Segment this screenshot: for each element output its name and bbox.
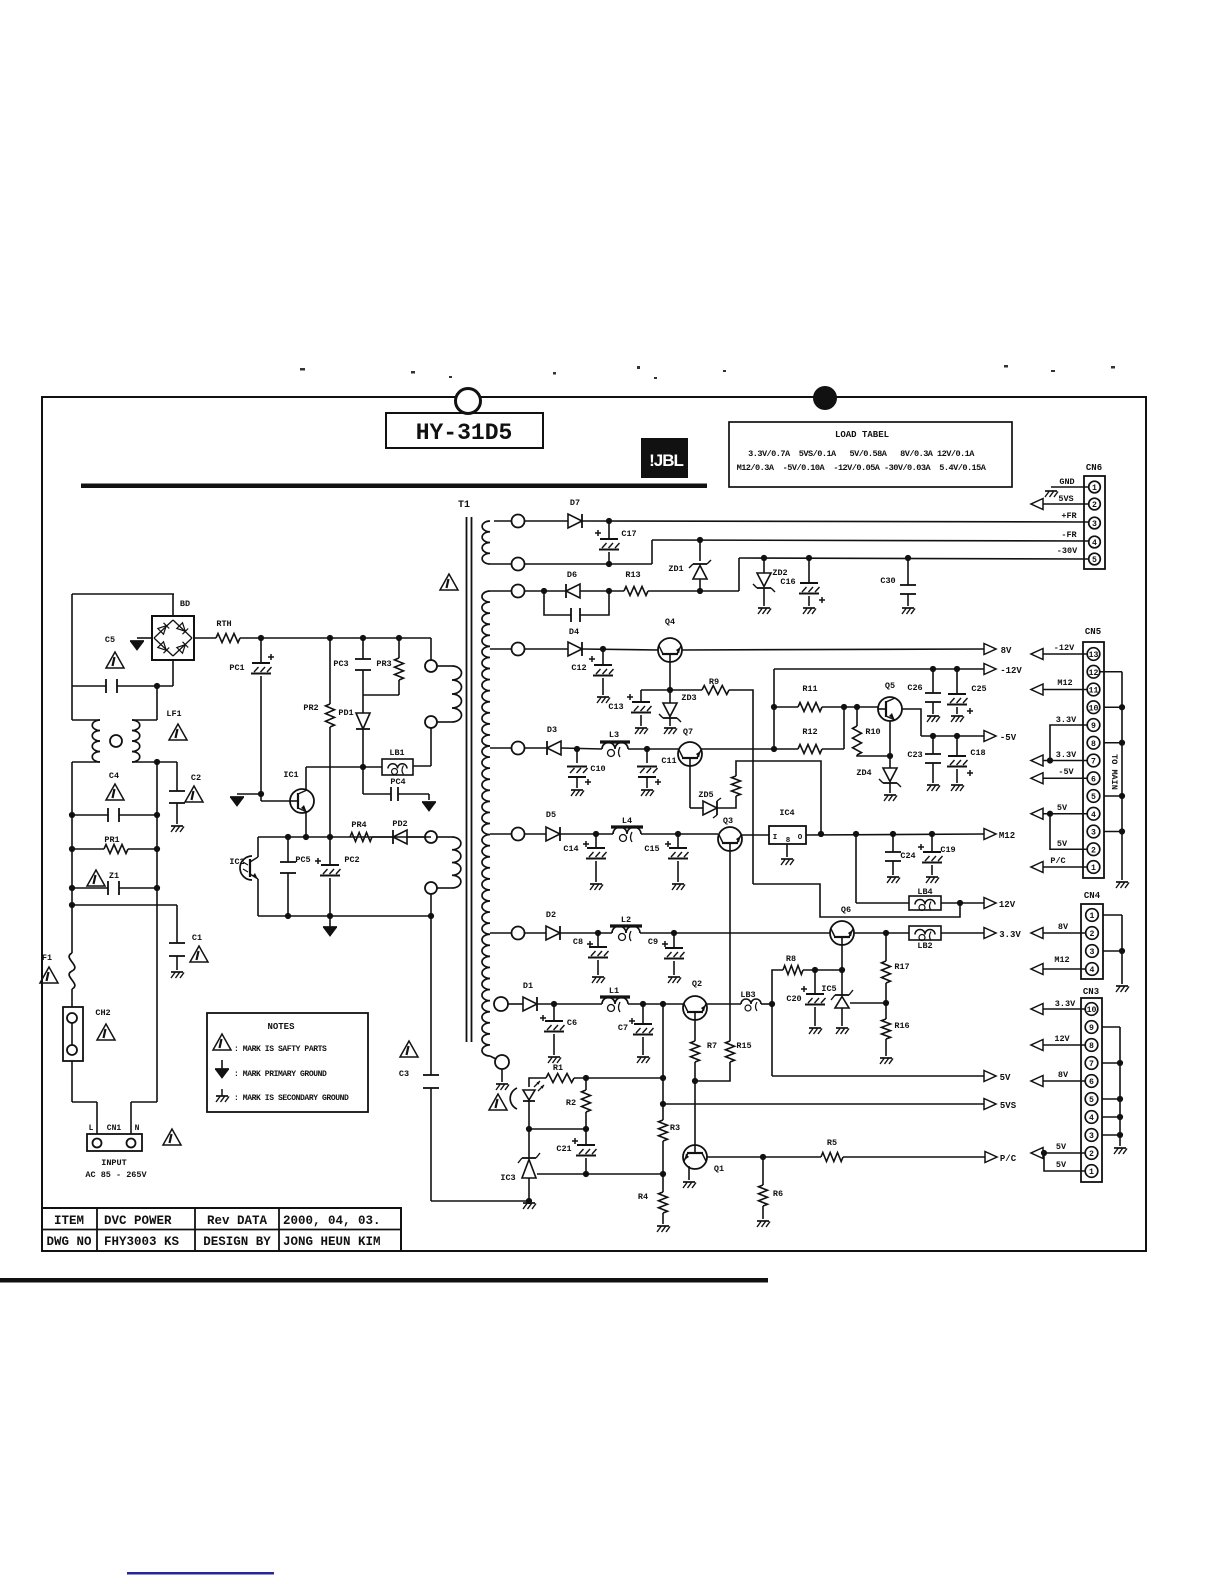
wire left rail C4 <box>71 762 73 815</box>
junction R17 top <box>883 930 889 936</box>
CN5 pin 10 <box>1087 701 1100 714</box>
wire left rail Z1 <box>71 849 73 888</box>
wire IC3 anode lead <box>528 1178 530 1201</box>
wire PR2 bottom lead <box>329 727 331 837</box>
primary ground at PC4 <box>422 801 436 803</box>
junction R12 left <box>771 746 777 752</box>
svg-text:7: 7 <box>1091 758 1096 767</box>
wire L4 to Q3 <box>641 833 718 835</box>
CN5 pin 2 <box>1087 843 1100 856</box>
svg-text:PD2: PD2 <box>392 819 407 829</box>
wire to C13 <box>641 689 670 691</box>
diode D3 <box>547 741 561 755</box>
arrow 8V to CN3 <box>1031 1076 1043 1087</box>
ground at C12 <box>597 696 609 698</box>
wire PD2 to winding <box>407 836 425 838</box>
wire LB2 to 3.3V arrow <box>941 932 984 934</box>
wire CN1 N drop <box>130 1102 132 1134</box>
junction CN3 bus pin7 <box>1117 1060 1123 1066</box>
junction C20 <box>812 967 818 973</box>
plus mark C15 <box>665 843 671 845</box>
plus mark C18 <box>967 772 973 774</box>
svg-text:C16: C16 <box>780 577 795 587</box>
wire R4 bottom lead <box>662 1213 664 1224</box>
wire PR1 right <box>128 848 157 850</box>
capacitor C24 <box>885 851 901 853</box>
svg-text:D3: D3 <box>547 725 557 735</box>
svg-text:L1: L1 <box>609 986 619 996</box>
wire Q2 base lead <box>694 1020 696 1041</box>
wire left rail PR1 <box>71 815 73 849</box>
svg-text:D7: D7 <box>570 498 580 508</box>
svg-text:BD: BD <box>180 599 190 609</box>
wire sec tap D4 <box>490 648 511 650</box>
wire CN3 pin3 bus stub <box>1102 1134 1120 1136</box>
wire CN6 5VS <box>1043 503 1088 505</box>
wire C15 top lead <box>677 834 679 848</box>
wire D4 anode <box>524 648 568 650</box>
wire FR return <box>524 563 652 565</box>
svg-text:C11: C11 <box>661 756 676 766</box>
wire PR4 to PD2 <box>372 836 393 838</box>
svg-text:C2: C2 <box>191 773 201 783</box>
wire R11 to Q5 base <box>822 706 878 708</box>
wire L1 to Q2 <box>628 1003 684 1005</box>
junction C24 <box>890 831 896 837</box>
svg-text:2000, 04, 03.: 2000, 04, 03. <box>283 1214 381 1228</box>
wire C17 bottom lead <box>608 552 610 564</box>
thick bottom rule <box>0 1278 768 1283</box>
wire R10 top lead <box>856 707 858 726</box>
svg-text:L4: L4 <box>622 816 632 826</box>
CN5 pin 5 <box>1087 790 1100 803</box>
junction C30 <box>905 555 911 561</box>
wire sec tap D2 <box>490 932 511 934</box>
wire IC2 emitter <box>257 879 259 916</box>
arrow 5VS to CN6 <box>1031 499 1043 510</box>
svg-text:L2: L2 <box>621 915 631 925</box>
wire PC4 left <box>363 793 391 795</box>
CN6 pin 3 <box>1089 517 1101 529</box>
warning mark at C1 <box>190 946 208 962</box>
wire M12 to LB4 <box>855 834 857 903</box>
junction PD1/LB1/IC1 <box>360 764 366 770</box>
capacitor PC1 <box>252 662 270 664</box>
diode D4 <box>568 642 582 656</box>
wire LF1 left bottom <box>72 761 100 763</box>
wire C6 bottom lead <box>553 1034 555 1055</box>
wire Q4 base lead <box>669 662 671 690</box>
svg-text:2: 2 <box>1091 846 1096 855</box>
wire D1 anode <box>508 1003 523 1005</box>
inductor bead LB4 <box>909 896 941 910</box>
svg-text:C4: C4 <box>109 771 119 781</box>
arrow P/C to CN5 <box>1031 862 1043 873</box>
junction R17/R16 <box>883 1000 889 1006</box>
wire 5V rail <box>772 1075 984 1077</box>
line filter LF1 left winding <box>92 720 100 762</box>
wire IC1 base <box>261 800 290 802</box>
diode D2 <box>546 926 560 940</box>
wire C16 top lead <box>808 558 810 583</box>
wire C5 left <box>72 685 106 687</box>
wire CN3 ground bus <box>1119 1027 1121 1146</box>
CN5 pin 11 <box>1087 683 1100 696</box>
svg-text:6: 6 <box>1091 775 1096 784</box>
arrow 3.3V to CN3 <box>1031 1004 1043 1015</box>
ground at CN5 bus <box>1116 881 1128 883</box>
CN5 pin 12 <box>1087 665 1100 678</box>
wire PC5 top lead <box>287 837 289 862</box>
wire left rail to C1 row <box>71 888 73 905</box>
svg-text:C13: C13 <box>608 702 623 712</box>
wire Q7 to R12 row <box>701 748 798 750</box>
CN4 pin 1 <box>1086 909 1099 922</box>
wire P/C rail <box>843 1156 985 1158</box>
resistor R12 <box>798 745 822 754</box>
wire C11 bottom lead <box>646 777 648 788</box>
junction C17 <box>606 518 612 524</box>
wire C11 top lead <box>646 749 648 763</box>
wire CN5 pin11 <box>1043 689 1087 691</box>
capacitor PC5 <box>280 861 296 863</box>
wire C21 top lead <box>585 1129 587 1145</box>
svg-text:C20: C20 <box>786 994 801 1004</box>
wire PC3 top lead <box>362 638 364 659</box>
svg-text:R3: R3 <box>670 1123 680 1133</box>
svg-text:Rev DATA: Rev DATA <box>207 1214 268 1228</box>
junction PC5 top <box>285 834 291 840</box>
ground at C2 <box>171 825 183 827</box>
plus mark C17 <box>595 532 601 534</box>
wire CN5 pin4 <box>1043 813 1087 815</box>
wire right rail C4 <box>156 762 158 815</box>
wire CN4 pin1 bus stub <box>1103 914 1122 916</box>
svg-text:T1: T1 <box>458 500 470 511</box>
junction CN3 bus pin3 <box>1117 1132 1123 1138</box>
svg-text:Q1: Q1 <box>714 1164 724 1174</box>
resistor R13 <box>624 587 648 596</box>
junction CN5 bus pin3 <box>1119 828 1125 834</box>
connector CN6 box <box>1084 476 1105 569</box>
svg-text:C6: C6 <box>567 1018 577 1028</box>
inductor L1 <box>602 998 628 1004</box>
svg-text:R8: R8 <box>786 954 796 964</box>
wire IC3 node row <box>529 1128 586 1130</box>
wire Q7 emitter drop <box>689 766 691 808</box>
wire BD bottom stub <box>172 660 174 686</box>
wire CN3 pin6 <box>1043 1080 1085 1082</box>
transistor Q7 <box>678 742 702 766</box>
svg-text:R15: R15 <box>736 1041 751 1051</box>
svg-text:3.3V: 3.3V <box>1055 999 1076 1009</box>
transistor IC1 <box>290 789 314 813</box>
svg-text:LB3: LB3 <box>740 990 755 1000</box>
wire IC1 emitter <box>305 812 307 837</box>
CN5 pin 13 <box>1087 648 1100 661</box>
CN3 pin 2 <box>1085 1147 1098 1160</box>
svg-text:8: 8 <box>786 837 791 845</box>
arrow 5V to CN3 <box>1031 1148 1043 1159</box>
junction C17 bottom <box>606 561 612 567</box>
ground at R6 <box>757 1220 769 1222</box>
inductor bead LB1 <box>382 759 413 775</box>
plus mark C9 <box>662 943 668 945</box>
notes secondary ground symbol <box>221 1089 223 1096</box>
resistor R17 <box>882 961 891 983</box>
resistor R5 <box>821 1153 843 1162</box>
junction C4 right <box>154 812 160 818</box>
svg-text:PR4: PR4 <box>351 820 366 830</box>
ground at C14 <box>590 883 602 885</box>
warning mark at Z1 <box>87 870 105 886</box>
wire -30V riser <box>738 558 740 591</box>
T1 secondary winding top <box>482 521 490 564</box>
wire C25 top lead <box>956 669 958 694</box>
wire CN5 ground bus <box>1121 672 1123 880</box>
wire primary bottom rail <box>258 915 431 917</box>
svg-text:CN3: CN3 <box>1083 987 1099 997</box>
plus mark C7 <box>629 1020 635 1022</box>
svg-text:: MARK IS SAFTY PARTS: : MARK IS SAFTY PARTS <box>234 1045 327 1054</box>
wire CN6 GND stub <box>1051 486 1088 488</box>
plus mark PC2 <box>315 860 321 862</box>
wire primary feedback row <box>258 836 431 838</box>
junction ZD1 bottom <box>697 588 703 594</box>
junction R6 <box>760 1154 766 1160</box>
plus mark C12 <box>589 658 595 660</box>
junction C4 left <box>69 812 75 818</box>
wire C8 top lead <box>597 933 599 947</box>
wire CN4 ground bus <box>1121 915 1123 984</box>
svg-text:R1: R1 <box>553 1063 563 1073</box>
svg-text:-5V: -5V <box>1000 733 1017 743</box>
wire LB3 out <box>761 1003 772 1005</box>
wire PC5 bottom lead <box>287 873 289 916</box>
capacitor C12 <box>594 664 612 666</box>
junction CN5 5V <box>1047 811 1053 817</box>
ground at R16 <box>880 1057 892 1059</box>
svg-text:C5: C5 <box>105 635 115 645</box>
wire -30V rail <box>739 558 1088 559</box>
svg-text:5V: 5V <box>1057 839 1068 849</box>
wire sec tap D5 <box>490 833 511 835</box>
wire opto cathode drop <box>528 1101 530 1129</box>
resistor PR3 <box>395 658 404 680</box>
T1 primary winding terminal lower1 <box>425 831 437 843</box>
arrow 5VS output <box>984 1099 996 1110</box>
ground at IC4 <box>781 858 793 860</box>
svg-text:AC 85 - 265V: AC 85 - 265V <box>85 1170 147 1180</box>
svg-text:CN5: CN5 <box>1085 627 1101 637</box>
T1 secondary terminal FR <box>512 558 525 571</box>
svg-text:R7: R7 <box>707 1041 717 1051</box>
svg-text:C30: C30 <box>880 576 895 586</box>
scan speck <box>1004 365 1008 368</box>
svg-text:Z1: Z1 <box>109 871 119 881</box>
resistor RTH <box>216 634 240 643</box>
plus mark C11 <box>655 781 661 783</box>
junction 5V sense drop <box>660 1001 666 1007</box>
svg-text:PR3: PR3 <box>376 659 391 669</box>
resistor PR1 <box>104 845 128 854</box>
ground at IC5 <box>836 1027 848 1029</box>
wire ZD4 bottom lead <box>889 783 891 793</box>
wire ZD2 bottom lead <box>763 588 765 606</box>
ground at C19 <box>926 876 938 878</box>
capacitor C14 <box>587 847 605 849</box>
wire R6 bottom lead <box>762 1206 764 1219</box>
wire D6 bypass right leg <box>580 591 609 615</box>
plus mark C16 <box>819 599 825 601</box>
capacitor C25 <box>948 693 966 695</box>
plus mark C19 <box>918 846 924 848</box>
CN4 pin 4 <box>1086 963 1099 976</box>
svg-text:4: 4 <box>1089 1114 1094 1123</box>
svg-text:TO MAIN: TO MAIN <box>1109 754 1119 790</box>
connector CN1 box <box>87 1134 142 1151</box>
svg-text:10: 10 <box>1089 704 1099 713</box>
wire ZD3 bottom lead <box>669 718 671 726</box>
CN3 pin 3 <box>1085 1129 1098 1142</box>
svg-text:-5V: -5V <box>1058 767 1074 777</box>
svg-text:Q4: Q4 <box>665 617 675 627</box>
svg-text:D1: D1 <box>523 981 533 991</box>
svg-text:I: I <box>773 834 778 842</box>
wire ZD1 bottom lead <box>699 579 701 591</box>
svg-text:C10: C10 <box>590 764 605 774</box>
junction CN5 bus pin8 <box>1119 740 1125 746</box>
svg-text:NOTES: NOTES <box>267 1022 295 1032</box>
wire M12 rail <box>806 834 984 835</box>
CN3 pin 5 <box>1085 1093 1098 1106</box>
svg-text:P/C: P/C <box>1000 1154 1017 1164</box>
junction winding/C3 <box>428 913 434 919</box>
connector CN4 box <box>1081 904 1103 979</box>
svg-text:PC5: PC5 <box>295 855 310 865</box>
transistor Q1 <box>683 1145 707 1169</box>
wire PD1 top lead <box>362 695 364 713</box>
wire C7 top lead <box>642 1004 644 1024</box>
wire winding stub <box>437 721 452 723</box>
wire inside CH2 <box>71 1023 73 1045</box>
capacitor C3 <box>423 1074 439 1076</box>
svg-text:8: 8 <box>1089 1042 1094 1051</box>
svg-text:C18: C18 <box>970 748 985 758</box>
svg-text:8V: 8V <box>1058 922 1069 932</box>
wire CN5 pin5 bus stub <box>1104 795 1122 797</box>
wire CN4 pin3 bus stub <box>1103 950 1122 952</box>
svg-text:1: 1 <box>1091 864 1096 873</box>
scan speck <box>449 376 452 378</box>
wire C14 to L4 <box>596 833 613 835</box>
wire LF1 right bottom <box>132 761 177 763</box>
capacitor C26 <box>925 692 941 694</box>
resistor R1 <box>546 1074 574 1083</box>
svg-text:Q3: Q3 <box>723 816 733 826</box>
capacitor C5 <box>105 679 107 693</box>
diode D1 <box>523 997 537 1011</box>
junction PR2/PC2 <box>327 834 333 840</box>
wire PR1 left <box>72 848 104 850</box>
shunt regulator IC5 <box>835 994 849 996</box>
junction C18 <box>954 733 960 739</box>
arrow P/C output <box>985 1152 997 1163</box>
svg-text:3: 3 <box>1091 829 1096 838</box>
junction PC1 top <box>258 635 264 641</box>
svg-text:C3: C3 <box>399 1069 409 1079</box>
wire -FR rail <box>652 540 1088 541</box>
transistor Q5 <box>878 697 902 721</box>
arrow 3.3V output <box>984 928 996 939</box>
wire C23 top lead <box>932 736 934 754</box>
junction PC5 bottom <box>285 913 291 919</box>
capacitor PC3 <box>355 658 371 660</box>
svg-text:C19: C19 <box>940 845 955 855</box>
warning mark at opto <box>489 1094 507 1110</box>
wire C18 bottom lead <box>956 769 958 783</box>
ground at Q1 <box>683 1181 695 1183</box>
punch hole (black circle) on top border <box>813 386 837 410</box>
wire C5 right <box>117 685 173 687</box>
connector CN3 box <box>1081 998 1102 1182</box>
wire Q3 base to R15 <box>729 851 731 1041</box>
zener diode ZD3 <box>663 717 677 719</box>
svg-text:ZD1: ZD1 <box>668 564 683 574</box>
diode D6 <box>566 584 580 598</box>
svg-text:11: 11 <box>1089 687 1099 696</box>
wire R15 to R7 node <box>695 1062 730 1081</box>
arrow -5V to CN5 <box>1031 773 1043 784</box>
wire LB4 left <box>856 902 909 904</box>
transistor Q3 <box>718 827 742 851</box>
wire C26 bottom lead <box>932 702 934 714</box>
capacitor C30 <box>900 584 916 586</box>
wire C2 bottom <box>176 803 178 824</box>
junction D6 bypass left <box>541 588 547 594</box>
svg-text:12V: 12V <box>999 900 1016 910</box>
svg-text:FHY3003 KS: FHY3003 KS <box>104 1235 180 1249</box>
T1 secondary terminal D3 <box>512 742 525 755</box>
arrow 8V output <box>984 644 996 655</box>
wire Q6 base drop <box>841 945 843 970</box>
wire CN5 pin12 bus stub <box>1100 671 1122 673</box>
T1 secondary terminal D6 <box>512 585 525 598</box>
wire R11 left lead <box>774 706 798 708</box>
svg-text:DWG NO: DWG NO <box>46 1235 92 1249</box>
arrow 3.3V to CN5 <box>1031 755 1043 766</box>
title block table <box>42 1208 401 1251</box>
resistor R10 <box>853 726 862 755</box>
wire PR3 bottom lead <box>398 680 400 695</box>
capacitor C18 <box>948 755 966 757</box>
wire to Q1 base <box>694 1081 696 1145</box>
zener diode ZD4 <box>883 782 897 784</box>
wire R17 bottom lead <box>885 983 887 1003</box>
inductor L3 <box>602 743 628 750</box>
svg-text:3: 3 <box>1092 520 1097 529</box>
CN1 pin L circle <box>93 1139 102 1148</box>
wire C13 bottom lead <box>640 715 642 726</box>
zener diode ZD5 <box>703 801 717 815</box>
wire to primary ground <box>237 793 261 795</box>
connector CH2 box <box>63 1007 83 1061</box>
svg-text:PR1: PR1 <box>104 835 119 845</box>
wire D6 row left <box>524 590 566 592</box>
bridge rectifier BD diodes <box>154 620 173 638</box>
wire C18 top lead <box>956 736 958 756</box>
blue artifact line <box>127 1572 274 1575</box>
